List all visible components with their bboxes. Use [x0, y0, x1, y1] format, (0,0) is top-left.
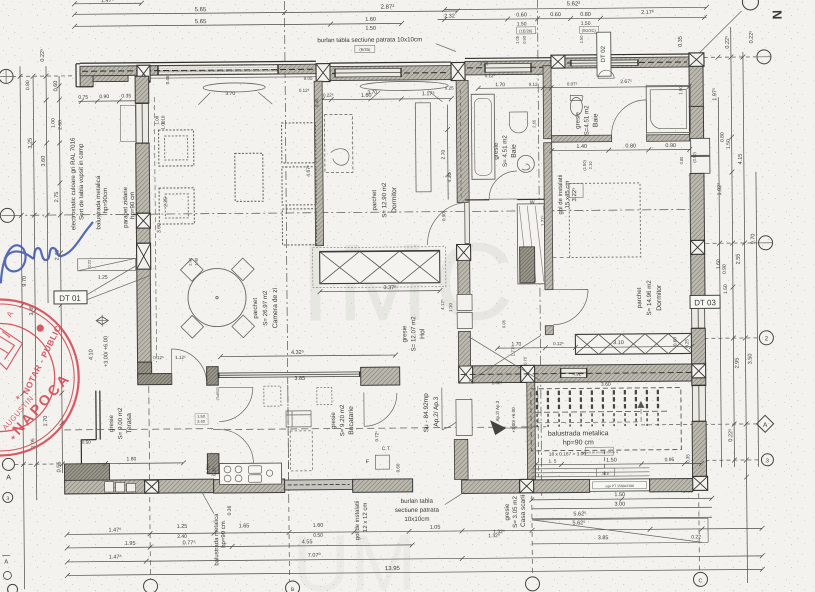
svg-text:4.10: 4.10 [88, 349, 94, 360]
svg-text:0.35: 0.35 [685, 454, 690, 463]
svg-text:0.22⁶: 0.22⁶ [323, 93, 334, 98]
svg-text:0.12⁴: 0.12⁴ [485, 73, 496, 78]
svg-text:0.80: 0.80 [625, 143, 636, 149]
svg-text:1.17⁵: 1.17⁵ [422, 90, 435, 97]
svg-text:Hmax·D.50 cm max 400cm ·h: Hmax·D.50 cm max 400cm ·h [581, 450, 619, 454]
svg-text:uşa PT 1500x2100: uşa PT 1500x2100 [605, 484, 634, 488]
svg-text:S= 9.20 m2: S= 9.20 m2 [339, 404, 346, 436]
svg-text:burlan tabla sectiune patrata: burlan tabla sectiune patrata 10x10cm [317, 36, 422, 44]
svg-text:0.60: 0.60 [53, 81, 59, 92]
svg-text:0.45: 0.45 [165, 75, 170, 84]
svg-text:DT 03: DT 03 [694, 298, 716, 307]
svg-text:C: C [698, 578, 702, 584]
svg-text:0.60: 0.60 [395, 463, 400, 472]
svg-text:0.12⁵: 0.12⁵ [553, 341, 564, 346]
svg-text:gol de instalatii: gol de instalatii [355, 500, 361, 540]
svg-text:1.05: 1.05 [515, 35, 520, 44]
svg-text:0.60: 0.60 [550, 12, 561, 18]
svg-text:(1.50): (1.50) [582, 159, 587, 170]
svg-text:0.22⁵: 0.22⁵ [39, 49, 46, 62]
svg-text:sectiune patrata: sectiune patrata [395, 507, 440, 514]
svg-text:4.32⁵: 4.32⁵ [291, 349, 304, 356]
svg-text:1.47⁵: 1.47⁵ [101, 0, 114, 4]
svg-text:3.85: 3.85 [598, 535, 609, 541]
svg-text:2.95: 2.95 [735, 358, 741, 369]
svg-text:0.90: 0.90 [441, 212, 446, 221]
svg-text:S= 26.97 m2: S= 26.97 m2 [262, 290, 269, 326]
svg-text:A: A [763, 422, 768, 429]
svg-text:Baie: Baie [511, 144, 518, 158]
svg-text:0.80: 0.80 [25, 80, 31, 90]
svg-text:gol de instalatii: gol de instalatii [558, 175, 564, 215]
svg-text:S= 12.07 m2: S= 12.07 m2 [410, 316, 417, 352]
svg-text:1.97⁵: 1.97⁵ [711, 88, 718, 101]
svg-text:gresie: gresie [401, 325, 408, 342]
svg-text:2.60: 2.60 [57, 120, 63, 130]
svg-text:1.00: 1.00 [160, 120, 165, 129]
svg-text:1.05: 1.05 [430, 525, 441, 531]
svg-text:1.00: 1.00 [50, 118, 56, 128]
svg-text:3.70: 3.70 [225, 91, 235, 97]
svg-text:0.05: 0.05 [501, 319, 506, 328]
svg-text:1.00: 1.00 [154, 115, 159, 124]
svg-text:10x10cm: 10x10cm [404, 516, 429, 523]
svg-text:9.70: 9.70 [22, 276, 28, 287]
svg-text:S= 4.51 m2: S= 4.51 m2 [502, 135, 509, 167]
svg-text:0.12⁵: 0.12⁵ [153, 355, 164, 360]
svg-text:C.T.: C.T. [382, 446, 391, 452]
svg-text:0.35: 0.35 [211, 467, 216, 476]
svg-text:(0G/2C): (0G/2C) [582, 28, 597, 33]
svg-text:W: W [530, 200, 535, 206]
svg-text:5.62⁵: 5.62⁵ [573, 510, 586, 517]
svg-text:12 x 12 cm: 12 x 12 cm [363, 503, 369, 532]
svg-text:0.50: 0.50 [82, 440, 91, 445]
svg-text:Ap.2/ Ap.3: Ap.2/ Ap.3 [495, 400, 500, 421]
svg-text:0.60: 0.60 [516, 12, 527, 18]
svg-text:1.50: 1.50 [517, 21, 527, 27]
svg-text:Camera de zi: Camera de zi [272, 287, 279, 328]
svg-text:0.05: 0.05 [304, 76, 313, 81]
svg-text:electrostatic culoare gri RAL: electrostatic culoare gri RAL 7016 [70, 137, 78, 230]
svg-text:B18: B18 [602, 472, 608, 476]
svg-text:S= 12.90 m2: S= 12.90 m2 [381, 182, 388, 218]
svg-text:2.32: 2.32 [444, 14, 455, 20]
svg-text:5.65: 5.65 [195, 19, 207, 25]
svg-text:+3.00/ +6.00: +3.00/ +6.00 [511, 407, 516, 433]
svg-text:0.25: 0.25 [445, 86, 454, 91]
svg-text:3.10: 3.10 [613, 340, 624, 346]
svg-text:S= 14.96 m2: S= 14.96 m2 [646, 280, 653, 316]
svg-text:15 x45 cm: 15 x45 cm [565, 181, 571, 209]
svg-text:3.22⁵: 3.22⁵ [571, 187, 578, 202]
svg-text:parchet: parchet [371, 190, 378, 211]
svg-text:Bucatarie: Bucatarie [348, 406, 355, 435]
svg-text:1.70: 1.70 [495, 82, 505, 88]
svg-text:0.90: 0.90 [722, 264, 728, 274]
svg-text:0.72⁵: 0.72⁵ [374, 431, 379, 442]
svg-text:Dormitor: Dormitor [391, 186, 398, 213]
svg-text:0.25: 0.25 [684, 339, 689, 348]
svg-text:3.25: 3.25 [28, 138, 34, 149]
svg-text:1.25: 1.25 [177, 524, 188, 530]
svg-text:parchet: parchet [636, 287, 643, 308]
svg-text:0.95: 0.95 [665, 457, 675, 463]
svg-text:3: 3 [6, 496, 9, 502]
svg-text:0.22⁵: 0.22⁵ [724, 36, 731, 49]
svg-text:0.12⁶: 0.12⁶ [299, 88, 310, 93]
svg-text:0.45: 0.45 [314, 98, 319, 107]
svg-text:S= 3.05 m2: S= 3.05 m2 [512, 496, 519, 528]
svg-text:3: 3 [766, 458, 769, 464]
svg-text:0.22⁵: 0.22⁵ [727, 429, 734, 442]
svg-text:3.37⁵: 3.37⁵ [383, 284, 396, 291]
svg-text:0.22: 0.22 [691, 534, 701, 540]
svg-text:0.80: 0.80 [580, 12, 591, 18]
svg-text:1.70: 1.70 [43, 416, 49, 427]
svg-text:DT 01: DT 01 [59, 294, 81, 303]
svg-text:1.32²: 1.32² [492, 380, 503, 385]
svg-text:Terasa: Terasa [126, 413, 133, 434]
svg-text:hp=90 cm: hp=90 cm [129, 192, 136, 219]
svg-text:2.67⁵: 2.67⁵ [620, 79, 632, 85]
svg-text:2.75: 2.75 [54, 192, 60, 203]
svg-text:balustrada metalica: balustrada metalica [548, 430, 609, 438]
svg-text:1.65: 1.65 [239, 523, 250, 529]
svg-text:2.65: 2.65 [531, 119, 536, 128]
svg-text:Ap.2/ Ap.3: Ap.2/ Ap.3 [433, 396, 440, 426]
svg-text:3.00: 3.00 [614, 502, 625, 508]
svg-text:0.75: 0.75 [78, 95, 88, 101]
svg-text:+3.00/ +6.00: +3.00/ +6.00 [103, 336, 109, 367]
svg-text:1.50: 1.50 [678, 86, 683, 95]
svg-text:hp=90cm: hp=90cm [102, 188, 109, 214]
svg-text:1.50: 1.50 [723, 284, 729, 294]
svg-text:4.67⁵: 4.67⁵ [306, 165, 312, 177]
svg-text:1.80: 1.80 [127, 456, 137, 462]
svg-text:0.22: 0.22 [87, 259, 92, 268]
svg-text:0.12: 0.12 [529, 82, 538, 87]
svg-text:Casa scarii: Casa scarii [520, 495, 527, 527]
svg-text:(0.90): (0.90) [692, 152, 697, 163]
svg-text:4.30: 4.30 [447, 172, 453, 182]
svg-text:0.70: 0.70 [205, 465, 210, 474]
svg-text:Dormitor: Dormitor [656, 284, 663, 311]
svg-text:gresie: gresie [574, 111, 581, 128]
svg-text:0.70: 0.70 [523, 356, 528, 365]
svg-text:2.55: 2.55 [736, 254, 742, 265]
svg-text:2.40: 2.40 [177, 534, 187, 540]
svg-text:0.36: 0.36 [227, 505, 233, 515]
svg-text:1.60: 1.60 [361, 93, 372, 99]
svg-text:1.47⁵: 1.47⁵ [109, 526, 122, 533]
svg-text:0.77⁵: 0.77⁵ [183, 539, 196, 546]
svg-text:Sort de tabla vopsit in camp: Sort de tabla vopsit in camp [78, 143, 86, 220]
svg-text:0.25: 0.25 [480, 61, 489, 66]
svg-text:2.70: 2.70 [441, 150, 447, 160]
svg-text:1.40: 1.40 [576, 144, 587, 150]
svg-text:hp=90 cm: hp=90 cm [221, 521, 227, 548]
svg-text:2.87²: 2.87² [381, 5, 395, 11]
svg-text:1.50: 1.50 [581, 21, 591, 27]
svg-text:3.60: 3.60 [601, 382, 611, 388]
svg-text:4.12⁵: 4.12⁵ [440, 299, 445, 310]
svg-text:1.60: 1.60 [365, 17, 376, 23]
svg-text:DT 02: DT 02 [601, 45, 607, 62]
svg-text:0.22⁵: 0.22⁵ [748, 30, 755, 43]
svg-text:gresie: gresie [504, 503, 511, 520]
svg-text:Baie: Baie [592, 113, 599, 127]
svg-text:1.47⁵: 1.47⁵ [109, 553, 122, 560]
svg-text:3.85: 3.85 [294, 376, 305, 382]
svg-text:1. 5: 1. 5 [548, 459, 556, 465]
svg-text:1.70: 1.70 [512, 341, 522, 347]
svg-text:0.80: 0.80 [679, 156, 684, 165]
svg-text:1.50: 1.50 [579, 35, 584, 44]
svg-text:N: N [770, 10, 785, 20]
svg-text:hp=90 cm: hp=90 cm [563, 439, 594, 446]
svg-text:parchet: parchet [252, 298, 259, 319]
svg-text:gresie: gresie [108, 415, 115, 432]
svg-text:Hol: Hol [419, 328, 426, 339]
svg-text:(1E/26): (1E/26) [519, 28, 533, 33]
svg-text:0.60: 0.60 [672, 337, 677, 346]
svg-text:3.50: 3.50 [748, 354, 754, 365]
svg-text:A: A [6, 474, 11, 481]
svg-text:0.35: 0.35 [678, 36, 684, 47]
svg-text:1.50: 1.50 [606, 458, 617, 464]
svg-text:1.10: 1.10 [448, 303, 453, 312]
svg-text:5.62²: 5.62² [567, 1, 581, 7]
svg-text:S=4.51 m2: S=4.51 m2 [583, 105, 590, 136]
svg-text:2.17⁶: 2.17⁶ [641, 9, 654, 16]
svg-text:1.32⁵: 1.32⁵ [493, 529, 505, 535]
svg-text:S= 9.00 m2: S= 9.00 m2 [117, 407, 124, 439]
svg-text:1.50: 1.50 [365, 26, 376, 32]
svg-text:0.55: 0.55 [56, 462, 62, 473]
svg-text:balustrada metalica: balustrada metalica [214, 513, 220, 566]
svg-text:gresie: gresie [493, 142, 500, 159]
svg-text:2.10: 2.10 [588, 161, 593, 170]
svg-text:gresie: gresie [330, 412, 337, 429]
svg-text:4.15: 4.15 [738, 154, 744, 165]
svg-text:(Tu8/02): (Tu8/02) [216, 387, 220, 400]
svg-text:3.60: 3.60 [41, 156, 47, 167]
svg-text:1.50: 1.50 [726, 139, 732, 149]
svg-text:2.25: 2.25 [163, 197, 169, 207]
svg-text:(E/2a): (E/2a) [359, 47, 371, 52]
svg-text:burlan tabla: burlan tabla [401, 498, 434, 505]
svg-text:0.07⁵: 0.07⁵ [567, 81, 578, 86]
svg-text:1.95: 1.95 [125, 541, 136, 547]
svg-text:A: A [4, 559, 8, 565]
svg-text:4.92⁵: 4.92⁵ [572, 371, 583, 376]
svg-text:5.65: 5.65 [195, 7, 207, 13]
svg-text:Su - 84.92mp: Su - 84.92mp [423, 393, 430, 432]
svg-text:1.12⁵: 1.12⁵ [175, 355, 186, 360]
svg-text:1.50: 1.50 [614, 492, 625, 498]
svg-text:0.35: 0.35 [121, 93, 131, 99]
svg-text:1.25: 1.25 [98, 275, 108, 281]
svg-text:1.82²: 1.82² [717, 183, 723, 196]
svg-text:0.90: 0.90 [665, 143, 676, 149]
svg-text:0.90: 0.90 [522, 35, 527, 44]
svg-text:2.40: 2.40 [197, 419, 206, 424]
svg-text:0.90: 0.90 [99, 94, 109, 100]
